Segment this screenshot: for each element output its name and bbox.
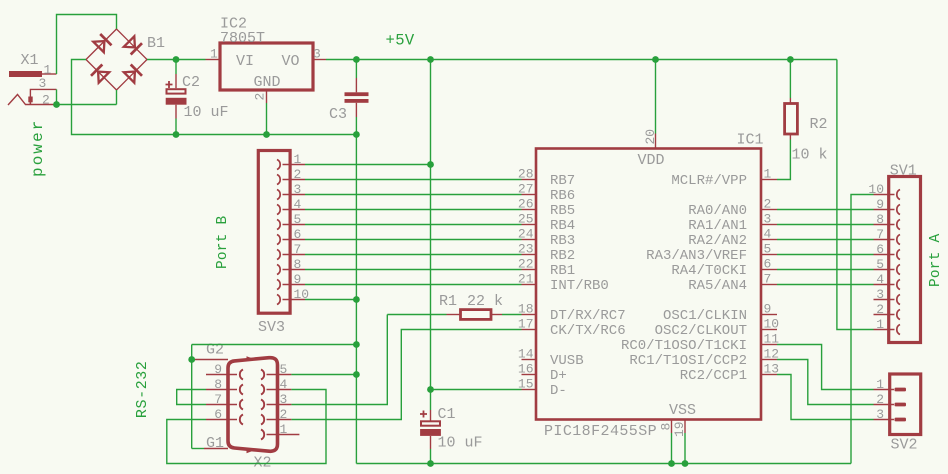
svg-text:OSC1/CLKIN: OSC1/CLKIN [663,308,747,324]
svg-text:RA0/AN0: RA0/AN0 [688,203,747,219]
pin IC1 3 RA1/AN1 [761,224,777,226]
svg-text:RB1: RB1 [550,263,575,279]
pin SV3 8 [277,265,280,275]
svg-text:RC1/T1OSI/CCP2: RC1/T1OSI/CCP2 [629,353,747,369]
pin IC1 25 RB4 [522,224,537,226]
svg-text:22 k: 22 k [467,293,503,310]
bridge rectifier B1 [86,29,117,60]
wire +5V drop vertical [430,60,432,390]
svg-text:Port B: Port B [215,215,231,269]
svg-text:6: 6 [876,242,884,257]
svg-text:7: 7 [876,227,884,242]
pin X2 8 [240,385,243,395]
pin IC1 22 RB1 [522,269,537,271]
svg-text:power: power [29,118,47,177]
pin IC1 9 OSC1/CLKIN [761,314,777,316]
svg-text:VI: VI [236,53,254,70]
svg-text:7: 7 [214,392,222,407]
pin X2 6 [240,415,243,425]
pin X2 7 [240,400,243,410]
svg-text:VSS: VSS [669,402,696,419]
pin IC1 5 RA3/AN3/VREF [761,254,777,256]
svg-text:C3: C3 [329,106,347,123]
svg-text:8: 8 [214,377,222,392]
pin IC1 21 INT/RB0 [522,284,537,286]
svg-text:RB4: RB4 [550,218,575,234]
pin IC1 27 RB6 [522,194,537,196]
svg-text:3: 3 [39,76,47,91]
svg-text:RB2: RB2 [550,248,575,264]
pin SV1 6 [897,250,900,260]
pin SV1 5 [897,265,900,275]
diode B1 lower-left [98,72,109,83]
svg-text:23: 23 [518,242,534,257]
wire to IC1 D- [431,389,522,391]
svg-text:4: 4 [294,197,302,212]
svg-text:3: 3 [280,392,288,407]
connector SV3 Port B [258,151,290,314]
pin IC1 16 D+ [522,374,537,376]
pin IC1 17 CK/TX/RC6 [522,329,537,331]
resistor R1 22k [387,314,446,316]
svg-text:4: 4 [764,227,772,242]
pin X2 3 [261,400,264,410]
pin SV1 1 [897,325,900,335]
svg-text:2: 2 [280,407,288,422]
wire +5V to SV1.1 [837,60,874,330]
wire RC1 to SV2.2 [777,360,874,405]
svg-text:3: 3 [294,182,302,197]
svg-text:10 k: 10 k [792,147,828,164]
pin SV2 2 [895,403,907,407]
pin IC1 6 RA4/T0CKI [761,269,777,271]
svg-text:1: 1 [210,47,218,62]
svg-text:7805T: 7805T [220,30,265,47]
pin SV1 10 [897,190,900,200]
connector SV1 Port A [889,177,921,343]
svg-text:GND: GND [254,74,281,91]
wire X2.6 to X2.4 loop [167,390,326,464]
pin IC1 2 RA0/AN0 [761,209,777,211]
pin X2 1 [261,430,264,440]
wire gnd bottom rail [356,463,851,465]
svg-text:9: 9 [214,362,222,377]
svg-text:10 uF: 10 uF [184,104,229,121]
resistor R2 10k [789,60,791,99]
pin IC2 GND [266,90,268,103]
svg-text:RS-232: RS-232 [134,360,151,418]
svg-text:SV2: SV2 [891,437,918,454]
svg-text:2: 2 [42,93,50,108]
connector X1 (power jack) [9,71,42,77]
wire SV1.10 to gnd rail [851,195,874,464]
wire R1 to X2.3 [291,315,387,405]
wire G2 to gnd vertical [192,344,357,346]
svg-text:10: 10 [764,317,780,332]
svg-text:20: 20 [643,129,658,145]
svg-text:9: 9 [764,302,772,317]
wire IC1.17 to X2.2 [291,330,521,420]
svg-text:CK/TX/RC6: CK/TX/RC6 [550,323,626,339]
pin SV3 6 [277,235,280,245]
svg-text:22: 22 [518,257,534,272]
pin IC1 7 RA5/AN4 [761,284,777,286]
wire SV3.10 gnd [305,299,356,301]
pin SV3 4 [277,205,280,215]
svg-text:21: 21 [518,272,534,287]
svg-text:RC0/T1OSO/T1CKI: RC0/T1OSO/T1CKI [621,338,747,354]
wire B1 bottom to X1.2 [116,90,118,105]
wire G2-G1 [191,345,193,449]
svg-text:1: 1 [764,167,772,182]
junction +5V drop [427,56,434,63]
pin SV1 9 [897,205,900,215]
pin SV2 3 [895,418,907,422]
svg-text:RA5/AN4: RA5/AN4 [688,278,747,294]
svg-text:OSC2/CLKOUT: OSC2/CLKOUT [655,323,747,339]
svg-text:19: 19 [672,421,687,437]
svg-text:10 uF: 10 uF [438,435,483,452]
svg-text:4: 4 [280,377,288,392]
wire RC2 to SV2.3 [777,375,874,420]
pin IC1 12 RC1/T1OSI/CCP2 [761,359,777,361]
svg-text:PIC18F2455SP: PIC18F2455SP [544,423,657,440]
svg-text:SV3: SV3 [258,319,285,336]
junction VDD [652,56,659,63]
svg-text:7: 7 [764,272,772,287]
svg-text:18: 18 [518,302,534,317]
pin SV1 3 [897,295,900,305]
diode B1 upper-right [124,36,135,47]
pin SV3 2 [277,175,280,185]
pin IC2 VO stub [313,59,326,61]
wire X1.1 to B1 top [57,15,117,75]
svg-text:B1: B1 [147,35,165,52]
svg-text:R2: R2 [810,116,828,133]
junction gnd C3 [353,131,360,138]
svg-text:G1: G1 [206,435,224,452]
svg-text:RC2/CCP1: RC2/CCP1 [680,368,747,384]
pin SV3 3 [277,190,280,200]
wire SV3.1 +5V [305,164,431,166]
svg-text:6: 6 [764,257,772,272]
svg-text:IC1: IC1 [737,132,764,149]
pin X2 G2 stub [192,359,228,361]
capacitor C1 [430,390,432,411]
svg-text:28: 28 [518,167,534,182]
svg-text:15: 15 [518,377,534,392]
svg-text:3: 3 [876,407,884,422]
wire X1.2 to B1 bottom leg [57,104,117,106]
svg-text:D-: D- [550,383,567,399]
svg-text:5: 5 [280,362,288,377]
pin SV1 2 [897,310,900,320]
svg-text:5: 5 [876,257,884,272]
pin SV3 9 [277,280,280,290]
pin IC1 13 RC2/CCP1 [761,374,777,376]
junction X1.2 [53,101,60,108]
connector SV2 [890,374,921,435]
pin IC1 24 RB3 [522,239,537,241]
connector X2 DB9 RS-232 [228,358,278,452]
svg-text:11: 11 [764,332,780,347]
IC U1 PIC18F2455SP [536,149,761,420]
pin IC1 8 VSS [671,420,673,434]
diode B1 lower-right [124,72,135,83]
svg-text:SV1: SV1 [890,163,917,180]
pin SV1 8 [897,220,900,230]
svg-text:5: 5 [294,212,302,227]
svg-text:10: 10 [868,182,884,197]
svg-text:+5V: +5V [386,32,415,50]
wire B1 left to gnd rail [72,60,357,135]
wire R2 to MCLR [777,140,790,180]
svg-text:C1: C1 [438,406,456,423]
svg-text:RB3: RB3 [550,233,575,249]
pin IC1 19 VSS [684,420,686,434]
wire X1.3 to X1.2 [56,89,58,104]
wire X2.8 to X2.7 loop [177,390,206,405]
pin SV1 4 [897,280,900,290]
svg-text:7: 7 [294,242,302,257]
svg-text:4: 4 [876,272,884,287]
pin X2 2 [261,415,264,425]
svg-text:RB7: RB7 [550,173,575,189]
svg-text:DT/RX/RC7: DT/RX/RC7 [550,308,626,324]
svg-text:RA3/AN3/VREF: RA3/AN3/VREF [646,248,747,264]
pin IC1 18 DT/RX/RC7 [522,314,537,316]
pin SV3 10 [277,295,280,305]
svg-text:27: 27 [518,182,534,197]
svg-text:2: 2 [764,197,772,212]
svg-text:C2: C2 [182,74,200,91]
svg-text:13: 13 [764,362,780,377]
svg-text:RA2/AN2: RA2/AN2 [688,233,747,249]
junction C1 gnd [427,460,434,467]
wires SV3.2-9 to RB7..RB0 [305,179,522,181]
voltage regulator IC2 7805T [220,43,313,90]
svg-text:1: 1 [876,317,884,332]
pin X2 9 [240,370,243,380]
svg-text:RB5: RB5 [550,203,575,219]
pin IC1 15 D- [522,389,537,391]
wires RA0-RA5 to SV1 [777,209,874,211]
svg-text:R1: R1 [439,293,457,310]
svg-text:2: 2 [876,392,884,407]
pin SV3 5 [277,220,280,230]
pin X2 5 [261,370,264,380]
pin IC1 1 MCLR#/VPP [761,179,777,181]
pin IC1 10 OSC2/CLKOUT [761,329,777,331]
pin IC1 23 RB2 [522,254,537,256]
svg-text:VO: VO [282,53,300,70]
svg-text:14: 14 [518,347,534,362]
pin X2 G1 stub [204,448,228,450]
svg-text:RB6: RB6 [550,188,575,204]
svg-text:D+: D+ [550,368,567,384]
svg-text:1: 1 [876,377,884,392]
svg-text:6: 6 [294,227,302,242]
capacitor C3 [355,60,357,79]
pin SV3 7 [277,250,280,260]
pin IC1 4 RA2/AN2 [761,239,777,241]
wire X2.5 gnd [291,374,356,376]
pin IC1 20 VDD [655,60,657,134]
svg-text:3: 3 [764,212,772,227]
junction C3 top [353,56,360,63]
svg-text:RA4/T0CKI: RA4/T0CKI [671,263,747,279]
junction R2 [787,56,794,63]
svg-text:VDD: VDD [638,152,665,169]
junction G2 [188,356,195,363]
pin IC1 28 RB7 [522,179,537,181]
svg-text:12: 12 [764,347,780,362]
svg-text:17: 17 [518,317,534,332]
svg-text:5: 5 [764,242,772,257]
svg-text:INT/RB0: INT/RB0 [550,278,609,294]
svg-text:9: 9 [876,197,884,212]
svg-text:25: 25 [518,212,534,227]
pin SV3 1 [277,160,280,170]
+5V rail [326,59,837,61]
svg-text:16: 16 [518,362,534,377]
diode B1 upper-left [93,41,104,52]
pin SV1 7 [897,235,900,245]
wire gnd vertical [355,135,357,464]
svg-text:9: 9 [294,272,302,287]
pin IC1 11 RC0/T1OSO/T1CKI [761,344,777,346]
svg-text:24: 24 [518,227,534,242]
pin IC1 14 VUSB [522,359,537,361]
svg-text:VUSB: VUSB [550,353,584,369]
svg-text:3: 3 [876,287,884,302]
svg-text:8: 8 [876,212,884,227]
svg-text:1: 1 [280,422,288,437]
capacitor C2 [173,56,180,63]
pin SV2 1 [895,388,907,392]
pin IC1 26 RB5 [522,209,537,211]
svg-text:Port A: Port A [928,233,944,287]
svg-text:8: 8 [294,257,302,272]
wire B1 right to IC2 [147,59,206,61]
svg-text:2: 2 [294,167,302,182]
wire RC0 to SV2.1 [777,345,874,390]
svg-text:2: 2 [253,93,268,101]
svg-text:RA1/AN1: RA1/AN1 [688,218,747,234]
pin X2 4 [261,385,264,395]
svg-text:2: 2 [876,302,884,317]
svg-text:6: 6 [214,407,222,422]
svg-text:X1: X1 [21,52,39,69]
svg-text:26: 26 [518,197,534,212]
svg-text:MCLR#/VPP: MCLR#/VPP [671,173,747,189]
svg-text:1: 1 [294,152,302,167]
